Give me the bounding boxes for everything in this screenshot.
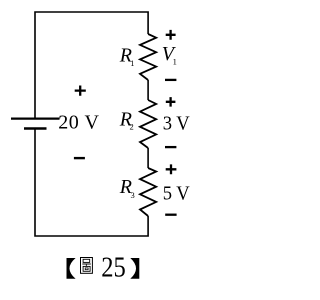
caption CJK character 圖 (figure) outer box: [81, 258, 93, 274]
caption right lenticular bracket: [130, 258, 139, 279]
wire: bottom route from battery - terminal down, across bottom, up to R3: [35, 129, 148, 237]
圖 small stroke under middle bar: [85, 264, 87, 266]
wire: between R2 and R3: [147, 148, 149, 168]
polarity + of V1: [166, 30, 176, 40]
wire: between R1 and R2: [147, 80, 149, 100]
battery polarity -: [74, 157, 85, 159]
圖 bottom inner box: [85, 268, 88, 270]
圖 bottom box: [83, 266, 90, 271]
battery 20 V: long positive plate: [11, 117, 60, 119]
resistor R1 zigzag: [140, 34, 156, 80]
polarity - of V1: [165, 79, 176, 81]
svg-text:1: 1: [130, 58, 134, 68]
polarity - of 3 V: [165, 146, 176, 148]
polarity - of 5 V: [165, 214, 176, 216]
resistor R2 zigzag: [140, 100, 156, 148]
svg-text:3: 3: [131, 190, 135, 200]
圖 inner top small box: [83, 259, 90, 262]
svg-text:20 V: 20 V: [58, 112, 99, 134]
圖 middle bar: [82, 263, 91, 265]
polarity + of 3 V: [166, 97, 176, 107]
caption left lenticular bracket: [67, 258, 76, 279]
battery 20 V: short negative plate: [24, 127, 47, 130]
svg-text:2: 2: [130, 122, 134, 132]
wire: top route from battery + terminal up, across top, down to R1: [35, 12, 148, 119]
svg-text:25: 25: [101, 251, 126, 283]
svg-text:5 V: 5 V: [163, 183, 190, 205]
polarity + of 5 V: [166, 164, 177, 174]
svg-text:3 V: 3 V: [163, 113, 190, 135]
resistor R3 zigzag: [140, 168, 156, 216]
battery polarity +: [75, 86, 86, 96]
svg-text:1: 1: [173, 56, 177, 66]
